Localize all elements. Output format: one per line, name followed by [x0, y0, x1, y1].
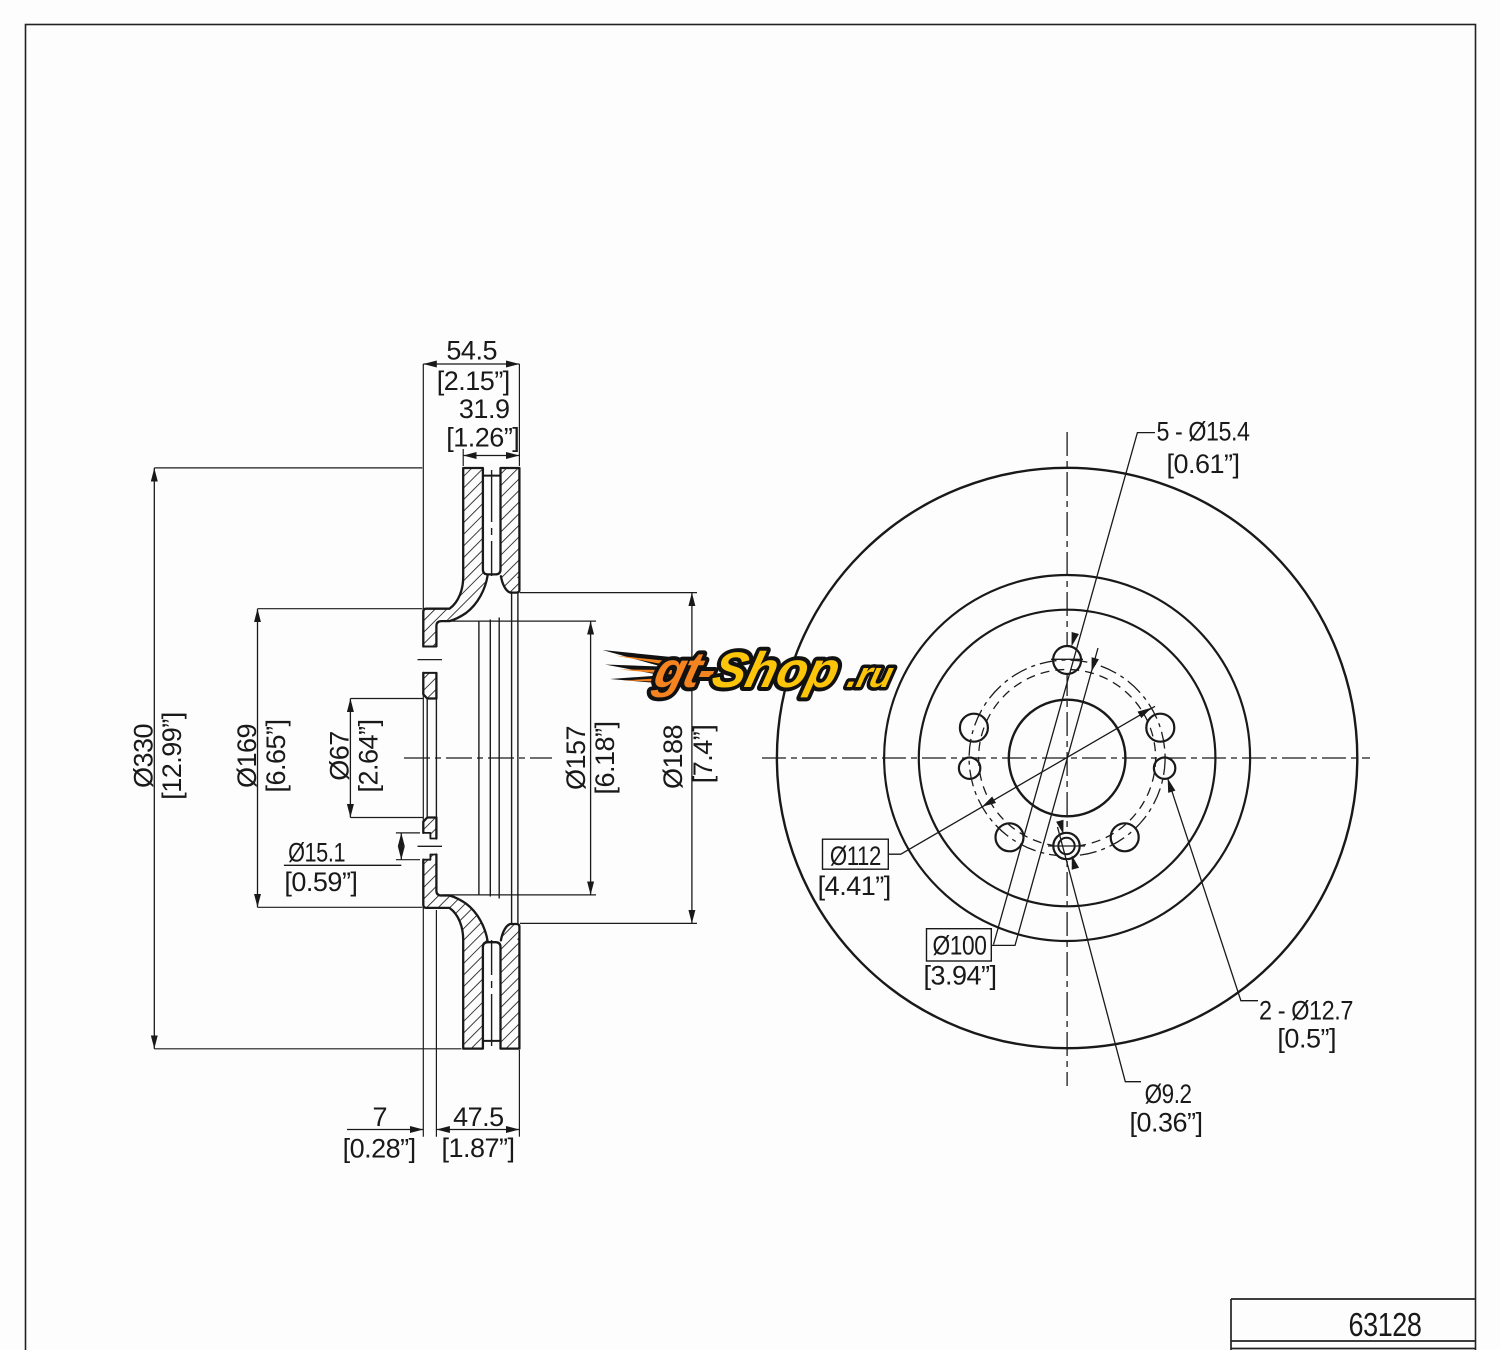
inboard plate outline top — [463, 468, 519, 577]
friction surface step tick bottom — [518, 938, 519, 940]
flange OD circle D169 — [919, 610, 1216, 907]
pin hole 354deg D12.7 — [1154, 758, 1175, 779]
cone inner surface top — [436, 576, 487, 647]
white vent slot top — [483, 466, 501, 574]
outboard plate upper edge bottom — [501, 924, 520, 940]
svg-text:5 - Ø15.4: 5 - Ø15.4 — [1157, 417, 1250, 447]
hub bore circle D67 — [1009, 700, 1126, 817]
svg-text:Ø169: Ø169 — [232, 724, 262, 788]
svg-text:Ø15.1: Ø15.1 — [288, 838, 345, 868]
svg-text:[0.36”]: [0.36”] — [1129, 1108, 1202, 1138]
extension lines counterbore D15.1 — [396, 832, 420, 834]
white vent slot bottom — [483, 942, 501, 1050]
extension lines hat inner D157 — [442, 620, 596, 622]
svg-text:Ø100: Ø100 — [933, 931, 987, 961]
extension line disc OD bottom — [154, 1048, 461, 1050]
vane edge line bottom slot — [483, 1040, 501, 1042]
D100 box label — [927, 929, 992, 961]
bolt hole 162deg — [960, 714, 988, 742]
svg-text:[2.64”]: [2.64”] — [354, 719, 384, 792]
hatched section bottom half — [423, 818, 519, 1049]
svg-text:63128: 63128 — [1349, 1306, 1422, 1343]
bolt hole edges — [423, 646, 436, 648]
title block — [1231, 1299, 1475, 1350]
svg-text:[12.99”]: [12.99”] — [157, 712, 187, 800]
top hole cross ticks — [1051, 658, 1083, 660]
svg-text:[6.18”]: [6.18”] — [590, 721, 620, 794]
part outline bottom half — [423, 818, 519, 1049]
svg-text:[7.4”]: [7.4”] — [688, 725, 718, 784]
disc outer circle D330 — [777, 468, 1357, 1048]
svg-text:Ø330: Ø330 — [129, 724, 159, 788]
svg-text:[4.41”]: [4.41”] — [818, 871, 891, 901]
vane edge line top slot — [483, 475, 501, 477]
svg-text:31.9: 31.9 — [459, 394, 510, 424]
dimension D15.1 — [400, 833, 402, 860]
svg-text:[1.26”]: [1.26”] — [446, 423, 519, 453]
extension line outboard face bottom — [518, 1050, 520, 1137]
flange back face through bore — [435, 699, 437, 818]
dimension 47.5 — [436, 1129, 519, 1131]
white counterbore hole — [422, 833, 431, 860]
set screw hole tick — [1048, 845, 1085, 847]
bolt hole 18deg — [1146, 714, 1174, 742]
dimension D330 — [153, 468, 155, 1049]
counterbore centerline tick — [418, 845, 443, 847]
svg-text:[2.15”]: [2.15”] — [437, 366, 510, 396]
extension line outboard face top — [518, 364, 520, 466]
dimension 7 — [347, 1129, 423, 1131]
bolt hole 234deg — [996, 823, 1024, 851]
white bolt hole band in flange — [422, 647, 437, 673]
leader D100 — [992, 648, 1098, 945]
D112 box label — [823, 839, 889, 869]
speed lines orange cores — [615, 656, 673, 683]
cone outer surface bottom — [423, 860, 463, 940]
vent slot centerline top — [491, 470, 493, 576]
dimension D157 — [590, 621, 592, 895]
cone outer surface top — [423, 577, 463, 647]
extension line disc OD top — [154, 467, 422, 469]
extension lines flange OD D169 — [258, 608, 423, 610]
speed lines — [603, 650, 677, 685]
svg-text:Ø9.2: Ø9.2 — [1145, 1079, 1192, 1109]
pin hole 186deg D12.7 — [959, 758, 980, 779]
inboard plate outline bottom — [463, 939, 519, 1048]
svg-text:[0.5”]: [0.5”] — [1277, 1024, 1336, 1054]
horizontal centerline — [762, 757, 1370, 759]
leader 2-D12.7 — [1168, 778, 1258, 1000]
hatched section top half — [423, 468, 519, 699]
bolt hole 306deg — [1111, 823, 1139, 851]
svg-text:Ø67: Ø67 — [325, 731, 355, 781]
leader 5-D15.4 — [994, 433, 1156, 945]
svg-text:47.5: 47.5 — [453, 1102, 504, 1132]
svg-text:[3.94”]: [3.94”] — [923, 960, 996, 990]
circle D100 dashed — [979, 670, 1156, 847]
svg-text:[1.87”]: [1.87”] — [441, 1133, 514, 1163]
svg-text:Shop: Shop — [707, 642, 846, 698]
outboard plate lower edge top — [501, 576, 520, 592]
extension line flange back face — [435, 910, 437, 1137]
dimension D67 — [349, 699, 351, 818]
part outline top half — [423, 468, 519, 699]
svg-text:Ø112: Ø112 — [830, 841, 881, 871]
extension line inboard plate face — [462, 449, 464, 466]
vertical centerline — [1066, 432, 1068, 1086]
svg-text:Ø157: Ø157 — [561, 726, 591, 790]
leader D9.2 — [1058, 827, 1142, 1082]
cone edge circle — [884, 575, 1250, 941]
svg-text:[0.28”]: [0.28”] — [343, 1133, 416, 1163]
friction surface step tick — [518, 576, 519, 578]
bolt circle D112 dash-dot — [969, 660, 1165, 856]
dimension 54.5 — [423, 363, 519, 365]
flange at bolt hole top — [423, 673, 436, 699]
set screw hole D9.2 — [1053, 833, 1079, 859]
cone inner surface bottom — [436, 855, 487, 942]
svg-text:[0.61”]: [0.61”] — [1166, 449, 1239, 479]
bore chamfer edge through bore — [426, 699, 428, 818]
svg-text:54.5: 54.5 — [446, 335, 497, 365]
leader D112 diametral — [888, 706, 1155, 854]
hat interior visible edges — [427, 593, 518, 924]
dimension D169 — [257, 609, 259, 908]
counterbore edges — [423, 833, 436, 839]
section horizontal centerline — [404, 757, 552, 759]
svg-text:2 - Ø12.7: 2 - Ø12.7 — [1259, 995, 1353, 1025]
svg-text:7: 7 — [373, 1102, 388, 1132]
svg-text:[6.65”]: [6.65”] — [261, 719, 291, 792]
bolt hole centerline tick — [418, 659, 443, 661]
vent slot centerline bottom — [491, 940, 493, 1046]
extension lines friction ID D188 — [520, 592, 697, 594]
flange at counterbore bottom — [423, 818, 436, 839]
bolt hole 90deg — [1053, 646, 1081, 674]
extension line mounting face — [422, 364, 424, 1137]
extension lines hub bore D67 — [350, 698, 423, 700]
dimension 31.9 — [463, 455, 519, 457]
svg-text:[0.59”]: [0.59”] — [284, 867, 357, 897]
svg-text:Ø188: Ø188 — [658, 725, 688, 789]
dimension D188 — [691, 593, 693, 924]
